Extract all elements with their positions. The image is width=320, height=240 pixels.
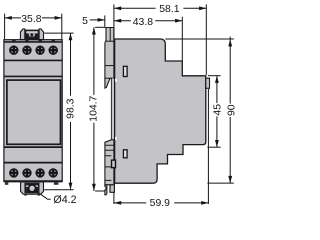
below-body: slider block <box>110 185 114 193</box>
top sealing tab <box>20 29 43 40</box>
dim 58.1 line <box>114 7 156 9</box>
clip mid line <box>105 65 114 67</box>
front panel inset <box>7 80 61 144</box>
seal light bar <box>26 31 37 33</box>
rail channel strip <box>110 78 112 139</box>
svg-text:35.8: 35.8 <box>21 14 41 25</box>
dim 45 line <box>216 76 218 103</box>
dim 98.3 ext bottom <box>44 189 73 191</box>
label strip bottom line <box>4 75 62 77</box>
lower slot <box>123 150 127 158</box>
svg-text:58.1: 58.1 <box>159 4 179 15</box>
dim 98.3 line <box>70 33 72 96</box>
dim 59.9 ext left <box>113 193 115 204</box>
clip top piece bottom line <box>106 40 114 42</box>
dim 35.8 ext lines <box>5 14 62 39</box>
dim 104.7 ext bottom <box>95 190 105 192</box>
leader O4.2 <box>34 190 51 200</box>
dim 43.8 ext right <box>181 17 183 61</box>
svg-text:59.9: 59.9 <box>150 198 170 209</box>
terminal strip bottom line (top row) <box>4 59 62 61</box>
dim 35.8 line <box>5 17 21 19</box>
shared front ext line <box>113 4 115 38</box>
dim 45 top ext <box>208 75 221 77</box>
seal light wings <box>29 34 36 37</box>
below-body: hook strip left <box>105 185 107 195</box>
body outline <box>4 40 62 182</box>
svg-text:43.8: 43.8 <box>133 17 153 28</box>
dim 58.1 ext right <box>205 4 207 75</box>
dim 104.7 line <box>93 27 95 95</box>
rail hook top line <box>105 77 114 79</box>
line under panel <box>4 146 62 148</box>
screw B4 <box>49 169 58 178</box>
svg-text:Ø4.2: Ø4.2 <box>53 194 76 206</box>
dim 104.7 ext top <box>95 26 105 28</box>
screw T1 <box>9 46 18 55</box>
clip grip rect <box>112 160 116 168</box>
screw T4 <box>49 46 58 55</box>
flange front ext line <box>104 15 106 27</box>
DIN clip flange: upper gray part <box>105 28 114 89</box>
right post <box>39 29 43 40</box>
seal dark dot <box>30 33 33 36</box>
bottom terminal strip top line <box>4 162 62 164</box>
clip top inner vertical <box>109 28 111 42</box>
bottom tab <box>21 182 44 196</box>
screw B1 <box>9 169 18 178</box>
left post <box>20 29 24 40</box>
screw B2 <box>23 169 32 178</box>
dim 90 top ext (body top continuation) <box>165 38 234 40</box>
white notch at channel bottom <box>115 137 117 140</box>
screw T3 <box>36 46 45 55</box>
wire slots top <box>12 39 55 42</box>
foot left <box>5 182 8 184</box>
white notch in body at rail channel top <box>115 79 117 82</box>
screw B3 <box>36 169 45 178</box>
foot right <box>54 182 59 184</box>
svg-text:45: 45 <box>213 104 224 116</box>
dim 5 arrow <box>90 19 105 21</box>
svg-text:98.3: 98.3 <box>66 98 77 118</box>
dim 90 bottom ext <box>207 182 233 184</box>
dim 45 bottom ext <box>207 146 220 148</box>
dim 90 line <box>229 37 231 39</box>
svg-text:104.7: 104.7 <box>89 95 100 121</box>
right bump <box>206 78 210 88</box>
lower movable clip <box>105 140 116 185</box>
body bottom thick line <box>4 180 62 182</box>
upper slot <box>123 66 127 76</box>
body front face thick line <box>113 39 115 184</box>
body profile <box>114 39 206 183</box>
dim 59.9 line <box>114 202 146 204</box>
terminal boundary thick line top <box>4 41 62 43</box>
dim 98.3 ext top <box>44 32 73 34</box>
dim 43.8 line <box>114 20 131 22</box>
svg-text:90: 90 <box>226 104 237 116</box>
screw T2 <box>23 46 32 55</box>
svg-text:5: 5 <box>82 16 88 27</box>
center seal block <box>25 30 39 40</box>
dim 59.9 ext right <box>207 89 209 204</box>
